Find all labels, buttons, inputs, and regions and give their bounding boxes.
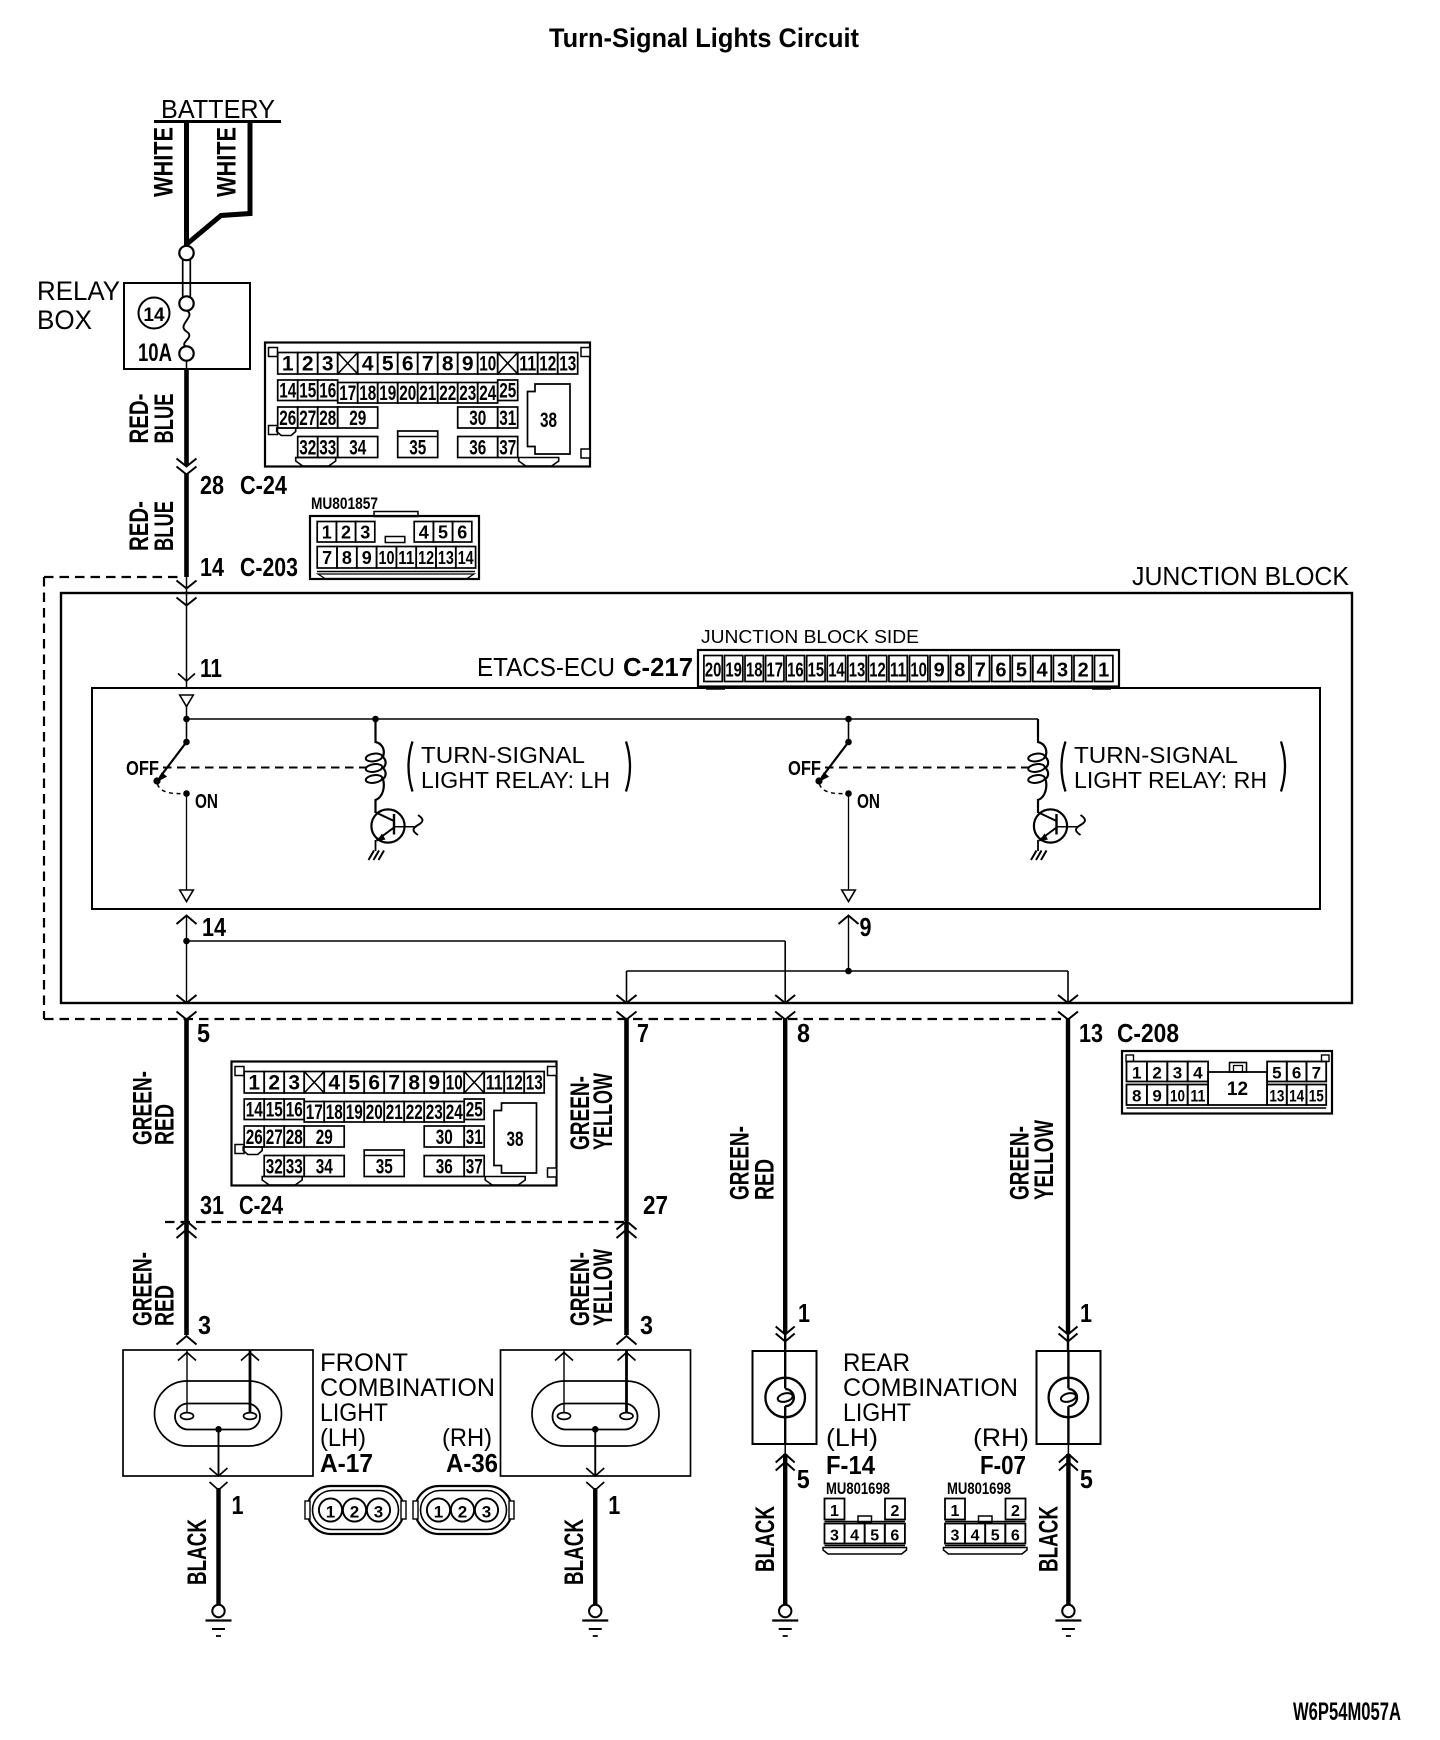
svg-text:1: 1	[1098, 660, 1109, 682]
svg-text:1: 1	[608, 1490, 620, 1520]
wire ON contact down	[848, 794, 850, 891]
ETACS pin 9 exit	[839, 916, 859, 925]
junction block exit chevrons	[177, 995, 197, 1003]
svg-text:BATTERY: BATTERY	[161, 94, 275, 124]
svg-text:1: 1	[798, 1298, 810, 1328]
svg-text:14: 14	[458, 548, 474, 568]
svg-text:20: 20	[705, 660, 722, 682]
svg-text:27: 27	[643, 1190, 668, 1220]
switch throw dashed arc to ON	[820, 784, 845, 794]
bulb front combination	[155, 1381, 282, 1446]
transistor emitter to ground	[1037, 840, 1039, 851]
front combination light RH	[501, 1350, 691, 1636]
svg-text:28: 28	[319, 407, 336, 430]
svg-text:33: 33	[319, 437, 336, 460]
junction block outline	[61, 593, 1352, 1003]
svg-text:38: 38	[540, 409, 557, 432]
svg-text:C-24: C-24	[240, 470, 287, 500]
bulb front combination	[532, 1381, 659, 1446]
svg-text:MU801698: MU801698	[826, 1480, 890, 1498]
wire black to ground	[216, 1488, 220, 1605]
svg-text:3: 3	[360, 523, 370, 543]
ground symbol	[212, 1605, 224, 1617]
switch throw dashed arc to ON	[158, 784, 183, 794]
wire red-blue lower segment	[184, 474, 189, 577]
svg-text:1: 1	[232, 1490, 244, 1520]
svg-text:11: 11	[890, 660, 907, 682]
svg-text:4: 4	[1036, 660, 1048, 682]
svg-text:YELLOW: YELLOW	[588, 1073, 618, 1150]
arrow into ETACS pin 11	[178, 674, 195, 682]
svg-text:RED: RED	[150, 1104, 180, 1145]
rear combination light RH	[1033, 1350, 1100, 1636]
svg-text:1: 1	[1080, 1298, 1092, 1328]
ON contact	[845, 790, 852, 797]
svg-text:18: 18	[359, 382, 376, 405]
svg-text:14: 14	[202, 912, 226, 942]
wire through box bottom	[784, 1444, 786, 1455]
dashed link switch to coil RH	[825, 767, 1029, 769]
wire green-red front LH	[184, 1019, 189, 1221]
wire left pin inside	[186, 1350, 188, 1413]
svg-text:11: 11	[1190, 1087, 1205, 1106]
svg-text:TURN-SIGNAL: TURN-SIGNAL	[421, 742, 585, 768]
svg-text:C-203: C-203	[240, 552, 298, 582]
connector C-208 pictorial	[1122, 1051, 1332, 1114]
dashed link switch to coil LH	[163, 767, 366, 769]
svg-text:15: 15	[808, 660, 825, 682]
svg-text:F-07: F-07	[980, 1450, 1026, 1480]
svg-text:6: 6	[1011, 1528, 1020, 1545]
svg-text:15: 15	[299, 380, 316, 403]
svg-text:7: 7	[1312, 1064, 1321, 1083]
wire black rear to ground	[1066, 1454, 1070, 1605]
svg-text:13: 13	[438, 548, 454, 568]
svg-text:W6P54M057A: W6P54M057A	[1293, 1698, 1401, 1726]
svg-text:ON: ON	[857, 791, 880, 813]
svg-text:32: 32	[299, 437, 316, 460]
bulb common wire down	[594, 1429, 596, 1476]
svg-text:11: 11	[398, 548, 414, 568]
exit chevrons rear	[1059, 1454, 1078, 1463]
connector pass-through chevrons at C-24 pin 28	[177, 459, 197, 467]
connector chevrons at harness exit	[177, 1012, 197, 1020]
svg-text:BLACK: BLACK	[750, 1506, 780, 1572]
svg-text:8: 8	[342, 548, 352, 568]
svg-text:6: 6	[1292, 1064, 1301, 1083]
svg-text:9: 9	[362, 548, 372, 568]
svg-text:C-217: C-217	[623, 652, 693, 682]
svg-text:7: 7	[422, 353, 434, 376]
connector C-24 pictorial lower	[232, 1062, 557, 1186]
svg-text:FRONT: FRONT	[320, 1349, 408, 1377]
exit triangle	[842, 890, 856, 902]
wire white left from battery	[184, 121, 189, 246]
label turn-signal light relay LH	[409, 742, 413, 792]
relay coil	[1037, 719, 1039, 743]
svg-text:2: 2	[350, 1503, 359, 1522]
label turn-signal light relay RH	[1062, 742, 1066, 792]
svg-text:31: 31	[499, 407, 516, 430]
svg-text:28: 28	[200, 470, 224, 500]
wire green-red front LH lower	[184, 1222, 189, 1335]
svg-text:1: 1	[1132, 1064, 1141, 1083]
wire ON contact down	[186, 794, 188, 891]
wire black rear to ground	[783, 1454, 787, 1605]
svg-text:2: 2	[458, 1503, 467, 1522]
svg-text:RED: RED	[750, 1159, 780, 1200]
svg-text:13: 13	[1079, 1018, 1103, 1048]
svg-text:25: 25	[499, 380, 516, 403]
svg-text:7: 7	[975, 660, 986, 682]
svg-text:5: 5	[438, 523, 448, 543]
svg-text:(LH): (LH)	[826, 1424, 878, 1452]
svg-text:3: 3	[640, 1310, 653, 1340]
svg-text:2: 2	[1078, 660, 1089, 682]
exit triangle	[180, 890, 194, 902]
svg-text:LIGHT RELAY: LH: LIGHT RELAY: LH	[421, 767, 610, 793]
svg-text:4: 4	[362, 353, 374, 376]
entry chevrons rear LH	[776, 1327, 795, 1335]
svg-text:WHITE: WHITE	[212, 127, 242, 197]
front combination light LH	[123, 1350, 313, 1636]
svg-text:BLACK: BLACK	[559, 1519, 589, 1585]
svg-text:3: 3	[1173, 1064, 1182, 1083]
svg-text:35: 35	[409, 437, 426, 460]
connector C-24 pictorial upper	[265, 343, 590, 467]
svg-text:5: 5	[991, 1528, 1000, 1545]
svg-text:2: 2	[302, 353, 314, 376]
bus wire from pin 11 to both relays	[186, 707, 188, 720]
svg-text:C-24: C-24	[239, 1190, 283, 1220]
svg-text:22: 22	[439, 382, 456, 405]
svg-text:20: 20	[399, 382, 416, 405]
wire pin14 C-203 to ETACS pin 11	[186, 577, 188, 688]
svg-text:12: 12	[418, 548, 434, 568]
bulb rear combination	[784, 1350, 786, 1389]
svg-text:8: 8	[1132, 1087, 1141, 1106]
svg-text:BOX: BOX	[37, 305, 92, 335]
svg-text:YELLOW: YELLOW	[588, 1249, 618, 1326]
svg-text:C-208: C-208	[1117, 1018, 1179, 1048]
svg-text:1: 1	[282, 353, 294, 376]
ETACS pin 14 exit	[177, 916, 197, 925]
svg-text:2: 2	[341, 523, 351, 543]
svg-text:10: 10	[379, 548, 395, 568]
relay driver transistor	[1034, 809, 1067, 842]
svg-text:6: 6	[402, 353, 414, 376]
svg-text:5: 5	[1272, 1064, 1281, 1083]
connector F-07 pictorial	[944, 1499, 1028, 1555]
svg-text:TURN-SIGNAL: TURN-SIGNAL	[1074, 742, 1238, 768]
wire pin14 bus to front-RH column	[187, 940, 786, 942]
svg-text:16: 16	[787, 660, 804, 682]
ETACS pin 11 entry triangle	[180, 695, 194, 707]
fuse element	[183, 311, 189, 347]
svg-text:24: 24	[479, 382, 496, 405]
ground symbol	[589, 1605, 601, 1617]
svg-text:8: 8	[797, 1018, 810, 1048]
svg-text:23: 23	[459, 382, 476, 405]
svg-text:10A: 10A	[138, 339, 172, 367]
svg-text:JUNCTION BLOCK SIDE: JUNCTION BLOCK SIDE	[701, 626, 919, 647]
svg-text:COMBINATION: COMBINATION	[320, 1374, 495, 1402]
svg-text:9: 9	[462, 353, 474, 376]
svg-text:6: 6	[995, 660, 1006, 682]
wire right pin inside	[625, 1350, 628, 1413]
svg-text:14: 14	[143, 305, 165, 326]
svg-text:4: 4	[419, 523, 429, 543]
entry chevrons rear RH	[1059, 1327, 1078, 1335]
wire green-yellow front RH lower	[624, 1222, 629, 1335]
svg-text:26: 26	[279, 407, 296, 430]
wire white right from battery	[188, 121, 251, 244]
svg-text:2: 2	[1152, 1064, 1161, 1083]
connector F-14 pictorial	[823, 1499, 907, 1555]
connector A-36 pictorial	[413, 1486, 514, 1534]
svg-text:18: 18	[746, 660, 763, 682]
svg-text:7: 7	[322, 548, 332, 568]
svg-text:12: 12	[539, 353, 556, 376]
connector C-203 pictorial	[310, 512, 479, 580]
entry chevrons front RH	[617, 1336, 637, 1345]
svg-text:1: 1	[951, 1503, 960, 1520]
svg-text:13: 13	[1269, 1087, 1284, 1106]
svg-text:4: 4	[850, 1528, 859, 1545]
svg-text:13: 13	[849, 660, 866, 682]
svg-text:OFF: OFF	[126, 758, 159, 780]
svg-text:BLACK: BLACK	[1033, 1506, 1063, 1572]
svg-text:30: 30	[469, 407, 486, 430]
svg-text:YELLOW: YELLOW	[1029, 1120, 1059, 1200]
transistor emitter to ground	[375, 840, 377, 851]
svg-text:3: 3	[951, 1528, 960, 1545]
svg-text:7: 7	[637, 1018, 649, 1048]
svg-text:ON: ON	[195, 791, 218, 813]
svg-text:15: 15	[1309, 1087, 1324, 1106]
relay driver transistor	[371, 809, 404, 842]
ground symbol rear	[1062, 1605, 1074, 1617]
svg-text:REAR: REAR	[843, 1349, 910, 1377]
pass-through chevrons C-24 pin31	[177, 1221, 197, 1230]
svg-text:LIGHT: LIGHT	[320, 1399, 388, 1427]
wire pin9 bus	[627, 970, 1069, 972]
svg-text:3: 3	[322, 353, 334, 376]
svg-text:2: 2	[1011, 1503, 1020, 1520]
svg-text:9: 9	[934, 660, 945, 682]
relay box outline	[124, 283, 250, 369]
svg-text:1: 1	[326, 1503, 335, 1522]
bulb common wire down	[218, 1429, 220, 1476]
entry chevrons front LH	[177, 1336, 197, 1345]
wire green-red rear LH	[783, 1019, 787, 1334]
svg-text:JUNCTION BLOCK: JUNCTION BLOCK	[1132, 561, 1350, 591]
svg-text:LIGHT RELAY: RH: LIGHT RELAY: RH	[1074, 767, 1267, 793]
svg-text:5: 5	[797, 1464, 810, 1494]
wire right pin inside	[249, 1350, 252, 1413]
svg-text:31: 31	[200, 1190, 224, 1220]
turn-signal light relay LH	[126, 716, 630, 902]
svg-text:3: 3	[1057, 660, 1068, 682]
relay switch contact	[848, 719, 850, 742]
wire pin14 down-left column	[186, 941, 188, 1003]
connector A-17 pictorial	[305, 1486, 406, 1534]
svg-text:17: 17	[767, 660, 784, 682]
svg-text:6: 6	[890, 1528, 899, 1545]
svg-text:34: 34	[349, 437, 366, 460]
svg-text:16: 16	[319, 380, 336, 403]
svg-text:14: 14	[1289, 1087, 1304, 1106]
svg-text:F-14: F-14	[826, 1450, 875, 1480]
svg-text:8: 8	[954, 660, 965, 682]
ON contact	[183, 790, 190, 797]
svg-text:1: 1	[434, 1503, 443, 1522]
svg-text:3: 3	[374, 1503, 383, 1522]
svg-text:BLACK: BLACK	[182, 1519, 212, 1585]
filament contacts	[181, 1413, 194, 1420]
svg-text:14: 14	[279, 380, 296, 403]
svg-text:3: 3	[198, 1310, 211, 1340]
svg-text:5: 5	[870, 1528, 879, 1545]
svg-text:11: 11	[519, 353, 536, 376]
svg-text:2: 2	[891, 1503, 900, 1520]
svg-text:WHITE: WHITE	[149, 127, 179, 197]
svg-text:29: 29	[349, 407, 366, 430]
svg-text:1: 1	[322, 523, 332, 543]
svg-text:6: 6	[457, 523, 467, 543]
wire left pin inside	[563, 1350, 565, 1413]
svg-text:5: 5	[382, 353, 394, 376]
svg-text:8: 8	[442, 353, 454, 376]
svg-text:9: 9	[1152, 1087, 1161, 1106]
svg-text:11: 11	[200, 653, 222, 683]
svg-text:14: 14	[200, 552, 224, 582]
svg-text:13: 13	[559, 353, 576, 376]
fuse number circle 14	[139, 298, 170, 329]
relay switch contact	[186, 719, 188, 742]
wire red-blue upper segment	[184, 369, 189, 466]
svg-text:MU801698: MU801698	[947, 1480, 1011, 1498]
svg-text:36: 36	[469, 437, 486, 460]
svg-text:19: 19	[725, 660, 742, 682]
svg-text:A-36: A-36	[446, 1448, 498, 1478]
svg-text:9: 9	[860, 912, 872, 942]
ETACS-ECU inner box	[92, 688, 1320, 909]
svg-text:5: 5	[1016, 660, 1027, 682]
svg-text:RELAY: RELAY	[37, 276, 120, 306]
svg-text:RED: RED	[150, 1285, 180, 1326]
connector C-217 pin strip	[698, 650, 1119, 689]
svg-text:A-17: A-17	[320, 1448, 373, 1478]
filament contacts	[558, 1413, 571, 1420]
wire green-yellow rear RH	[1066, 1019, 1070, 1334]
svg-text:(RH): (RH)	[973, 1424, 1029, 1452]
svg-text:COMBINATION: COMBINATION	[843, 1374, 1018, 1402]
svg-text:1: 1	[830, 1503, 839, 1520]
svg-text:17: 17	[339, 382, 356, 405]
svg-text:4: 4	[1193, 1064, 1203, 1083]
wire through box bottom	[1067, 1444, 1069, 1455]
svg-text:10: 10	[1170, 1087, 1185, 1106]
svg-text:Turn-Signal Lights Circuit: Turn-Signal Lights Circuit	[549, 23, 859, 53]
relay coil	[374, 719, 376, 743]
svg-text:10: 10	[479, 353, 496, 376]
svg-text:OFF: OFF	[788, 758, 821, 780]
rear combination light LH	[750, 1350, 816, 1636]
fusible link holder	[179, 246, 193, 260]
svg-text:19: 19	[379, 382, 396, 405]
exit chevrons rear	[776, 1454, 795, 1463]
svg-text:10: 10	[910, 660, 927, 682]
ground hatch	[369, 851, 375, 861]
svg-text:37: 37	[499, 437, 516, 460]
svg-text:3: 3	[482, 1503, 491, 1522]
svg-text:4: 4	[971, 1528, 980, 1545]
svg-text:21: 21	[419, 382, 436, 405]
pass-through chevrons C-24 pin27	[617, 1221, 637, 1230]
harness boundary dashed line	[44, 576, 183, 578]
battery bus bar	[154, 120, 281, 123]
svg-text:3: 3	[830, 1528, 839, 1545]
svg-text:5: 5	[197, 1018, 210, 1048]
svg-text:ETACS-ECU: ETACS-ECU	[477, 652, 615, 682]
svg-text:MU801857: MU801857	[311, 494, 378, 513]
svg-text:12: 12	[1227, 1079, 1248, 1100]
svg-text:12: 12	[869, 660, 886, 682]
svg-text:BLUE: BLUE	[149, 501, 179, 551]
ground hatch	[1031, 851, 1037, 861]
svg-text:5: 5	[1080, 1464, 1093, 1494]
svg-text:14: 14	[828, 660, 845, 682]
ground symbol rear	[779, 1605, 791, 1617]
svg-text:BLUE: BLUE	[149, 394, 179, 444]
svg-text:LIGHT: LIGHT	[843, 1399, 911, 1427]
turn-signal light relay RH	[788, 716, 1285, 902]
bulb rear combination	[1067, 1350, 1069, 1389]
svg-text:27: 27	[299, 407, 316, 430]
wire green-yellow front RH	[624, 1019, 629, 1221]
connector C-24 lower dashed line	[165, 1221, 627, 1223]
wire black to ground	[593, 1488, 597, 1605]
